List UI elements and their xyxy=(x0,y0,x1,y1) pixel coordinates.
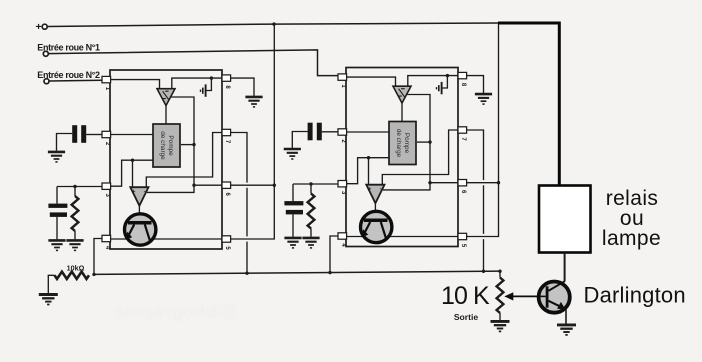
svg-text:Pompe: Pompe xyxy=(403,133,410,154)
ground R3 xyxy=(302,238,319,248)
ground C4 xyxy=(284,238,301,248)
capacitor C3 xyxy=(308,123,322,141)
wire U1 pin3 hook xyxy=(110,160,153,186)
internal ground U1 (rotated) xyxy=(201,84,206,96)
wire +V rail xyxy=(47,23,498,27)
pin 7 (U1 pin 7) xyxy=(222,129,231,144)
junction U1 pin6 node xyxy=(192,184,195,187)
pin 2 (U2 pin 2) xyxy=(338,129,347,144)
wire relay to Q3 collector xyxy=(564,253,566,282)
junction rail at R2 xyxy=(92,273,95,276)
pin 5 (U1 pin 5) xyxy=(222,236,231,251)
junction U2 pin8 node xyxy=(446,74,449,77)
pin 1 (U2 pin 1) xyxy=(338,74,347,89)
relay box xyxy=(539,186,591,253)
wire U1 comparator B to transistor xyxy=(138,206,140,222)
junction rail at R4 xyxy=(498,270,501,273)
IC U1 outline xyxy=(110,70,222,249)
pin 8 (U2 pin 8) xyxy=(458,72,467,87)
transistor Q2 (output, in circle) xyxy=(361,211,392,242)
block pompe de charge U2 xyxy=(389,122,416,165)
terminal Entrée roue N°2 xyxy=(44,79,49,84)
transistor Q1 (output, in circle) xyxy=(125,214,156,245)
wire U2 pin4 to bottom rail xyxy=(330,236,338,273)
wire U1 comparator output xyxy=(165,106,167,124)
wire U2 pin7 drop (with hops) xyxy=(466,130,484,271)
wire rail to R4 xyxy=(499,271,501,277)
svg-text:Sortie: Sortie xyxy=(454,312,479,322)
wire U1 comparator B output feedback xyxy=(147,185,194,192)
ground R2 xyxy=(39,295,58,305)
wire U2 comparator B output feedback xyxy=(383,183,430,190)
svg-text:Darlington: Darlington xyxy=(584,283,686,308)
pin 3 (U2 pin 3) xyxy=(338,181,347,196)
wire U2 pin6 to +V node xyxy=(466,182,499,184)
wire U2 comparator to pin8 xyxy=(408,76,458,87)
pin 7 (U2 pin 7) xyxy=(458,127,467,142)
pin 3 (U1 pin 3) xyxy=(102,183,111,198)
junction rail at U2 pin4 xyxy=(328,271,331,274)
svg-text:-: - xyxy=(380,186,382,192)
wire node to R3 xyxy=(310,184,312,194)
svg-text:de charge: de charge xyxy=(395,129,402,158)
ground R4 xyxy=(491,321,510,331)
wire U1 feedback vertical xyxy=(171,97,194,185)
pin 5 (U2 pin 5) xyxy=(458,233,467,248)
wire U2 pompe output xyxy=(417,141,430,143)
junction U1 pin3 node xyxy=(73,185,76,188)
wire bottom rail xyxy=(94,271,502,274)
wire U2 pin7 to comparator B minus xyxy=(382,130,458,185)
ground Q3 emitter xyxy=(557,325,576,335)
capacitor C2 xyxy=(48,204,67,217)
op-amp U1A (Schmitt trigger) xyxy=(157,89,175,106)
wire U2 node to comparator B plus xyxy=(368,158,370,185)
pin 2 (U1 pin 2) xyxy=(102,131,111,146)
svg-text:de charge: de charge xyxy=(159,131,166,160)
wire Entrée roue N°1 to U2 pin1 xyxy=(48,50,338,76)
junction U2 pin3 node xyxy=(367,156,370,159)
label relais ou lampe xyxy=(602,187,661,250)
capacitor C4 xyxy=(284,201,303,214)
wire R3 to ground xyxy=(310,229,312,237)
pin 6 (U1 pin 6) xyxy=(222,182,231,197)
wire U1 pompe output xyxy=(181,144,194,146)
pin 1 (U1 pin 1) xyxy=(102,76,111,91)
wire U1 node to comparator B plus xyxy=(132,160,134,187)
junction U1 pompe node xyxy=(192,143,195,146)
wire U1 pin2 to pompe xyxy=(110,134,153,136)
wire Q3 base arrow xyxy=(504,292,539,300)
wire C4 to ground xyxy=(292,214,294,236)
resistor R3 xyxy=(308,194,315,229)
wire node to C2 xyxy=(56,187,58,204)
wire U2 pin2 to C3 xyxy=(322,131,338,133)
op-amp U2B xyxy=(366,185,384,204)
wire U1 pin6 wire xyxy=(194,184,222,186)
resistor R2 10kΩ xyxy=(55,272,90,279)
wire R1 to ground xyxy=(74,231,76,239)
junction +V rail to U1 xyxy=(272,22,275,25)
junction U2 pin6 node xyxy=(428,181,431,184)
wire U1 pin4-pin5 line xyxy=(110,238,222,240)
internal ground U2 (rotated) xyxy=(437,82,442,94)
wire C2 to ground xyxy=(56,217,58,239)
wire U2 pin6 wire xyxy=(430,182,458,184)
op-amp U1B xyxy=(130,187,148,206)
wire U1 pin2 to C1 xyxy=(86,134,102,136)
junction U2 pin3 node xyxy=(309,182,312,185)
svg-text:Bibliographie: Bibliographie xyxy=(114,302,235,323)
junction rail at U1 pin7 xyxy=(245,272,248,275)
wire U1 pin3 node line xyxy=(57,186,102,188)
svg-text:10 K: 10 K xyxy=(441,282,490,310)
pin 4 (U1 pin 4) xyxy=(102,235,111,250)
wire U1 pin8 to ground xyxy=(230,78,254,96)
wire U1 pin7 drop (with hops) xyxy=(230,133,247,274)
wire U2 comparator B to transistor xyxy=(374,203,376,219)
wire U2 pin8 to ground xyxy=(466,76,484,93)
wire R4 to ground xyxy=(499,313,501,320)
capacitor C1 xyxy=(72,125,86,143)
svg-text:lampe: lampe xyxy=(602,227,661,250)
wire U1 comparator to pin8 xyxy=(172,78,222,89)
wire U2 internal ground hook xyxy=(442,76,448,88)
IC U2 outline xyxy=(346,68,458,247)
pin 4 (U2 pin 4) xyxy=(338,233,347,248)
ground C3 xyxy=(284,149,301,159)
svg-text:+: + xyxy=(36,21,42,33)
svg-text:Pompe: Pompe xyxy=(167,135,174,156)
wire Q3 emitter to ground xyxy=(565,309,567,324)
ghost bleed-through text xyxy=(114,302,235,323)
ground C1 xyxy=(48,152,65,162)
ground U2 pin8 xyxy=(475,94,492,104)
resistor R1 xyxy=(72,196,79,231)
wire node to R1 xyxy=(74,187,76,197)
wire U1 internal ground hook xyxy=(206,78,212,90)
ground C2 xyxy=(48,240,65,250)
wire U2 feedback vertical xyxy=(407,95,430,183)
wire R2 to ground xyxy=(48,275,54,293)
wire U2 pin3 node line xyxy=(293,183,338,185)
wire U1 pin4 to bottom rail xyxy=(94,239,102,275)
resistor R4 10K xyxy=(497,278,504,314)
wire U2 pin4-pin5 line xyxy=(346,236,458,238)
wire U2 pin1 to comparator input xyxy=(346,77,396,86)
junction rail at U2 pin7 xyxy=(482,270,485,273)
pin 8 (U1 pin 8) xyxy=(222,75,231,90)
wire +V drop to U1 xyxy=(273,24,275,185)
wire +V to relay (thick) xyxy=(498,23,559,186)
op-amp U2A (Schmitt trigger) xyxy=(393,86,411,103)
wire U1 pin1 to comparator input xyxy=(110,80,160,89)
wire node to C4 xyxy=(292,184,294,201)
svg-text:-: - xyxy=(144,188,146,194)
wire U2 pin5 to +V node xyxy=(466,183,499,237)
terminal + supply xyxy=(42,24,47,29)
transistor Q3 Darlington xyxy=(539,281,570,312)
wire U2 comparator output xyxy=(401,103,403,121)
junction U2 pin5/6 +V node xyxy=(497,181,500,184)
junction U1 pin8 node xyxy=(210,76,213,79)
terminal Entrée roue N°1 xyxy=(43,51,48,56)
wire U2 pin3 hook xyxy=(346,158,389,184)
ground R1 xyxy=(66,240,83,250)
wire Entrée roue N°2 to U1 pin1 xyxy=(49,79,102,82)
ground U1 pin8 xyxy=(245,97,262,107)
block pompe de charge U1 xyxy=(153,124,180,167)
wire U1 pin6 to +V node xyxy=(230,184,274,186)
wire C1 to ground xyxy=(57,134,73,151)
wire U2 pin2 to pompe xyxy=(346,131,389,133)
wire U1 pin7 to comparator B minus xyxy=(146,133,222,188)
wire U1 pin5 to +V node xyxy=(230,185,274,239)
wire +V drop to U2 xyxy=(498,23,500,183)
junction U1 pin3 node xyxy=(131,159,134,162)
wire C3 to ground xyxy=(292,132,307,148)
pin 6 (U2 pin 6) xyxy=(458,180,467,195)
junction U1 pin5/6 +V node xyxy=(273,184,276,187)
junction U2 pompe node xyxy=(428,140,431,143)
